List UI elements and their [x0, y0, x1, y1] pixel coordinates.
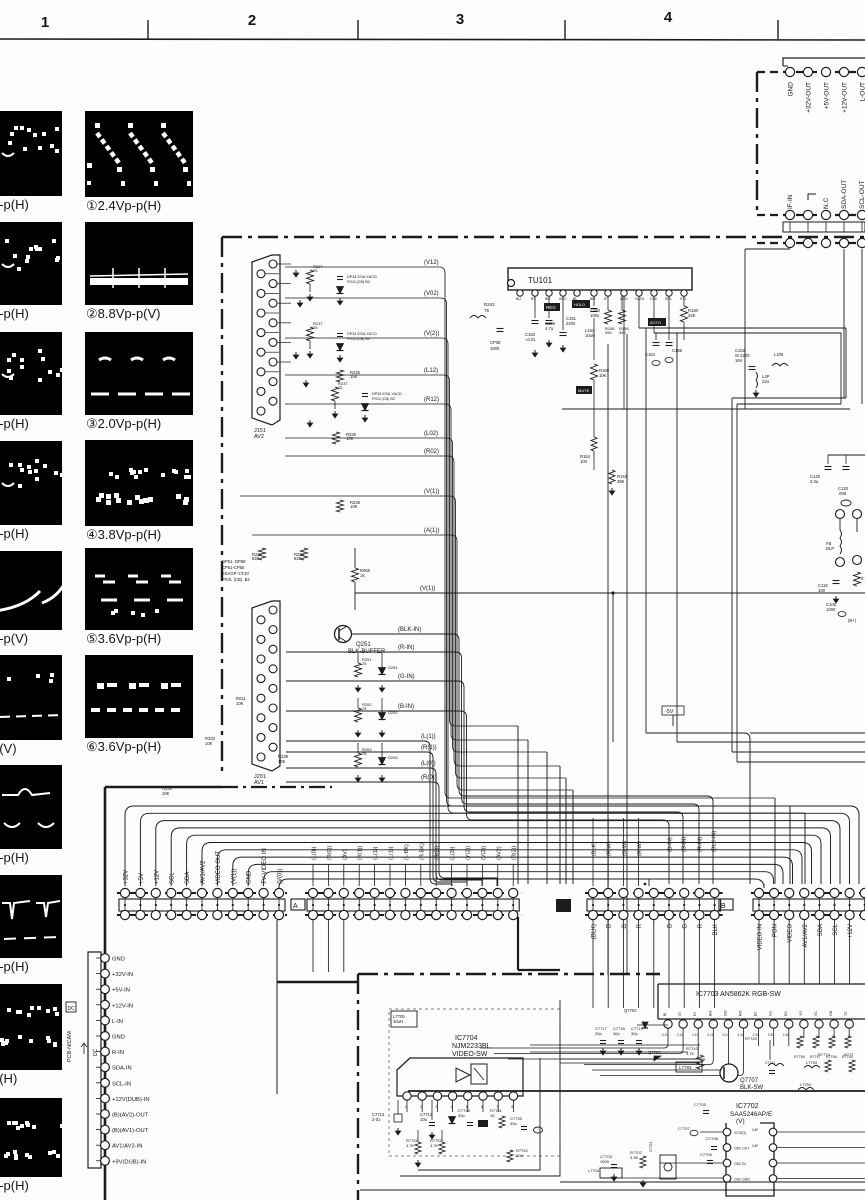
svg-text:30p: 30p [613, 1031, 620, 1036]
svg-text:(V(0)): (V(0)) [278, 869, 284, 884]
svg-text:(V(1)): (V(1)) [420, 586, 435, 592]
svg-text:BU: BU [516, 297, 521, 301]
svg-text:BLK: BLK [713, 924, 719, 935]
svg-text:Q7703: Q7703 [648, 1050, 661, 1055]
svg-text:(L12): (L12) [424, 368, 438, 374]
svg-text:AUTO: AUTO [650, 320, 661, 325]
svg-text:4.7u: 4.7u [545, 326, 554, 331]
svg-text:(L02): (L02) [424, 431, 438, 437]
svg-text:C7707: C7707 [678, 1126, 691, 1131]
svg-text:R7748: R7748 [794, 1055, 805, 1059]
svg-text:ESAGP-Y/CD/: ESAGP-Y/CD/ [222, 571, 250, 576]
svg-text:(B-IN): (B-IN) [398, 704, 414, 710]
svg-text:OSC IN: OSC IN [734, 1162, 746, 1166]
svg-text:15K: 15K [350, 374, 358, 379]
svg-text:100: 100 [516, 1153, 523, 1158]
svg-text:SAA5246AP/E: SAA5246AP/E [730, 1111, 773, 1118]
svg-text:(L(1)): (L(1)) [373, 846, 379, 860]
svg-text:(V(1)): (V(1)) [231, 869, 237, 884]
svg-text:2.1V: 2.1V [692, 1033, 699, 1037]
svg-text:p-p(H): p-p(H) [0, 1178, 29, 1193]
svg-text:CP38: CP38 [490, 340, 501, 345]
svg-text:B2: B2 [754, 1012, 758, 1016]
svg-text:STL: STL [680, 297, 687, 301]
svg-text:L7754: L7754 [800, 1082, 812, 1087]
svg-text:④3.8Vp-p(H): ④3.8Vp-p(H) [86, 527, 161, 542]
svg-text:=0.01: =0.01 [525, 337, 536, 342]
svg-text:820: 820 [252, 556, 260, 561]
svg-text:+12V-OUT: +12V-OUT [842, 82, 849, 113]
svg-text:PIC6 (CB) B2: PIC6 (CB) B2 [372, 397, 395, 401]
svg-text:(V02): (V02) [424, 291, 439, 297]
svg-text:G: G [683, 924, 689, 929]
svg-text:(R(1)): (R(1)) [421, 745, 437, 751]
svg-text:(R12): (R12) [424, 397, 439, 403]
svg-text:BI: BI [663, 1013, 667, 1016]
svg-text:C7705: C7705 [694, 1102, 707, 1107]
svg-text:PIC6 (CB) B2: PIC6 (CB) B2 [347, 337, 370, 341]
svg-text:PIC6. (CB). B2: PIC6. (CB). B2 [222, 577, 250, 582]
svg-text:10K: 10K [205, 741, 213, 746]
svg-text:SCL-OUT: SCL-OUT [859, 180, 865, 209]
svg-text:2: 2 [248, 12, 256, 29]
svg-text:4.7K: 4.7K [430, 1143, 439, 1148]
svg-text:L7793: L7793 [679, 1065, 692, 1070]
svg-text:(L(1)): (L(1)) [389, 846, 395, 860]
svg-text:2.1V: 2.1V [738, 1033, 745, 1037]
svg-text:+32V-IN: +32V-IN [112, 972, 133, 978]
svg-text:IC7702: IC7702 [736, 1103, 759, 1110]
svg-text:(V12): (V12) [424, 260, 439, 266]
svg-text:100: 100 [580, 459, 588, 464]
svg-text:GO: GO [723, 1010, 727, 1016]
svg-text:X7701: X7701 [649, 1142, 653, 1152]
svg-text:1000: 1000 [490, 346, 500, 351]
svg-text:(B+): (B+) [848, 618, 857, 623]
svg-text:R2: R2 [784, 1011, 788, 1016]
svg-text:GN: GN [829, 1010, 833, 1016]
svg-text:2.3V: 2.3V [768, 1033, 775, 1037]
svg-text:GI: GI [678, 1012, 682, 1016]
svg-text:(L(0)): (L(0)) [312, 846, 318, 860]
svg-text:BM: BM [590, 297, 595, 301]
svg-text:B: B [668, 924, 674, 928]
svg-text:+12V-IN: +12V-IN [112, 1003, 133, 1009]
svg-text:C7709: C7709 [700, 1152, 713, 1157]
svg-text:6: 6 [481, 1105, 483, 1109]
svg-text:(G-W): (G-W) [622, 841, 628, 856]
svg-text:39p: 39p [458, 1113, 465, 1118]
svg-text:Q7707: Q7707 [740, 1078, 759, 1084]
svg-text:4.7: 4.7 [861, 576, 865, 581]
svg-text:TU101: TU101 [528, 276, 553, 285]
svg-text:4.4F: 4.4F [752, 1128, 758, 1132]
svg-text:75: 75 [362, 661, 367, 666]
svg-text:D253: D253 [388, 755, 398, 760]
svg-text:10K: 10K [278, 759, 286, 764]
svg-text:10K: 10K [346, 436, 354, 441]
svg-text:BLK-SW: BLK-SW [740, 1085, 763, 1091]
svg-text:22K: 22K [688, 313, 696, 318]
svg-text:10K: 10K [236, 701, 244, 706]
svg-text:100: 100 [818, 588, 826, 593]
svg-text:R242: R242 [484, 302, 495, 307]
svg-text:Q7702: Q7702 [624, 1008, 637, 1013]
svg-text:REG: REG [546, 305, 556, 310]
svg-text:Q251: Q251 [356, 642, 371, 648]
svg-text:4.7K: 4.7K [686, 1051, 695, 1056]
svg-text:(BLK): (BLK) [592, 924, 598, 939]
svg-text:(R-IN): (R-IN) [698, 837, 704, 852]
svg-text:DLP: DLP [826, 546, 834, 551]
svg-text:(A(1)): (A(1)) [424, 528, 439, 534]
svg-text:30p: 30p [595, 1031, 602, 1036]
svg-text:3: 3 [435, 1105, 437, 1109]
svg-text:p(H): p(H) [0, 1071, 17, 1086]
svg-text:2.1V: 2.1V [707, 1033, 714, 1037]
svg-text:AV2: AV2 [254, 434, 264, 440]
svg-text:L-OUT: L-OUT [860, 82, 865, 102]
svg-text:10u: 10u [420, 1117, 428, 1122]
svg-text:SRL: SRL [665, 297, 672, 301]
svg-text:R: R [698, 923, 704, 928]
svg-text:G: G [622, 924, 628, 929]
svg-text:IF-IN: IF-IN [787, 194, 794, 209]
svg-text:SDA: SDA [185, 872, 191, 884]
svg-text:GND: GND [247, 870, 253, 884]
svg-text:R-IN: R-IN [112, 1050, 124, 1056]
svg-text:1: 1 [41, 14, 49, 31]
svg-text:2-01: 2-01 [372, 1117, 381, 1122]
svg-text:p(V): p(V) [0, 741, 17, 756]
svg-text:75: 75 [362, 706, 367, 711]
svg-text:DATA: DATA [635, 297, 645, 301]
svg-text:(R-IN): (R-IN) [398, 645, 414, 651]
svg-text:p-p(H): p-p(H) [0, 959, 29, 974]
svg-text:DP34 ESA-YACD: DP34 ESA-YACD [347, 332, 377, 336]
svg-text:D251: D251 [388, 665, 398, 670]
svg-text:p-p(H): p-p(H) [0, 197, 29, 212]
svg-text:C154: C154 [645, 352, 656, 357]
svg-text:DC: DC [68, 1006, 76, 1012]
svg-text:CP51-CP55: CP51-CP55 [222, 565, 245, 570]
svg-text:AV1/AV2: AV1/AV2 [201, 860, 207, 884]
svg-text:(R-W): (R-W) [637, 841, 643, 856]
svg-text:(L(2)): (L(2)) [450, 846, 456, 860]
svg-text:4: 4 [664, 9, 673, 26]
svg-text:+9V(DUB)-IN: +9V(DUB)-IN [112, 1159, 146, 1165]
svg-text:VIDEO: VIDEO [788, 924, 794, 943]
svg-text:L-IN: L-IN [112, 1019, 123, 1025]
svg-text:(G-IN): (G-IN) [398, 674, 415, 680]
svg-text:SCL: SCL [833, 923, 839, 935]
svg-text:(BLK-IN): (BLK-IN) [712, 830, 718, 852]
svg-text:DC: DC [93, 1048, 99, 1056]
svg-text:1: 1 [405, 1105, 407, 1109]
svg-text:(B-IN): (B-IN) [668, 837, 674, 852]
svg-text:4: 4 [451, 1105, 453, 1109]
svg-text:(G-IN): (G-IN) [682, 837, 688, 852]
svg-text:390: 390 [605, 330, 612, 335]
svg-text:+12V: +12V [848, 924, 854, 938]
svg-text:AV1/AV2-IN: AV1/AV2-IN [112, 1144, 142, 1150]
svg-text:2200: 2200 [566, 321, 576, 326]
svg-text:R777: R777 [844, 1052, 854, 1057]
svg-text:3.3K: 3.3K [630, 1155, 639, 1160]
svg-text:(V(1)): (V(1)) [424, 489, 439, 495]
svg-text:+32V: +32V [124, 870, 130, 884]
svg-text:(V): (V) [736, 1118, 745, 1125]
svg-text:OSC GND: OSC GND [734, 1178, 750, 1182]
svg-text:VIDEO IN: VIDEO IN [758, 924, 764, 950]
svg-text:1000: 1000 [600, 1159, 610, 1164]
svg-text:TC: TC [844, 1011, 848, 1016]
svg-text:16V: 16V [735, 358, 743, 363]
svg-text:C7708: C7708 [706, 1136, 719, 1141]
svg-text:R: R [637, 923, 643, 928]
svg-text:10K: 10K [162, 791, 170, 796]
svg-text:+5V-OUT: +5V-OUT [824, 82, 831, 109]
svg-text:BT: BT [531, 297, 536, 301]
svg-text:L7753: L7753 [806, 1060, 818, 1065]
svg-text:IC7703 AN5862K RGB-SW: IC7703 AN5862K RGB-SW [696, 991, 781, 998]
svg-text:22u: 22u [762, 379, 770, 384]
svg-text:(BLK-IN): (BLK-IN) [398, 627, 421, 633]
svg-text:(Y(2)): (Y(2)) [466, 846, 472, 860]
svg-text:AV1/AV2: AV1/AV2 [803, 923, 809, 947]
svg-text:DP34 ESA-YACD: DP34 ESA-YACD [347, 275, 377, 279]
svg-text:OSC OUT: OSC OUT [734, 1147, 749, 1151]
svg-text:(R02): (R02) [424, 449, 439, 455]
svg-text:3.3u: 3.3u [810, 479, 819, 484]
svg-text:39p: 39p [510, 1121, 517, 1126]
svg-text:4.7K: 4.7K [406, 1143, 415, 1148]
svg-text:(R(1)): (R(1)) [358, 845, 364, 860]
svg-text:390: 390 [619, 330, 626, 335]
svg-text:(R(2)): (R(2)) [435, 845, 441, 860]
svg-text:p-p(H): p-p(H) [0, 416, 29, 431]
svg-text:GND: GND [112, 957, 125, 963]
svg-text:DP34 ESA-YACD: DP34 ESA-YACD [372, 392, 402, 396]
svg-text:(B)(AV2)-OUT: (B)(AV2)-OUT [112, 1113, 149, 1119]
svg-text:YS: YS [799, 1011, 803, 1016]
svg-text:(AV2): (AV2) [496, 846, 502, 860]
svg-text:SDA: SDA [818, 924, 824, 936]
svg-text:.008: .008 [838, 491, 847, 496]
svg-text:SDA-IN: SDA-IN [112, 1066, 132, 1072]
svg-text:1K: 1K [490, 1113, 495, 1118]
svg-text:GND: GND [112, 1035, 125, 1041]
svg-text:A: A [293, 903, 298, 910]
svg-text:L7704: L7704 [588, 1168, 600, 1173]
svg-text:AV1: AV1 [254, 780, 264, 786]
svg-text:10K: 10K [350, 504, 358, 509]
svg-text:B: B [721, 903, 726, 910]
svg-text:GND: GND [788, 82, 795, 97]
svg-text:100u: 100u [590, 313, 600, 318]
svg-text:+12V(DUB)-IN: +12V(DUB)-IN [112, 1097, 150, 1103]
svg-text:L105: L105 [774, 352, 784, 357]
svg-text:10uH: 10uH [585, 333, 595, 338]
svg-text:(V(2)): (V(2)) [481, 846, 487, 860]
svg-text:p-p(H): p-p(H) [0, 306, 29, 321]
svg-text:VIDEO-SW: VIDEO-SW [452, 1051, 488, 1058]
svg-text:+12V: +12V [154, 870, 160, 884]
svg-text:B: B [607, 924, 613, 928]
svg-text:RO: RO [739, 1010, 743, 1016]
svg-text:8: 8 [511, 1105, 513, 1109]
svg-text:75: 75 [313, 325, 318, 330]
svg-text:p-p(H): p-p(H) [0, 850, 29, 865]
svg-text:10uH: 10uH [393, 1019, 403, 1024]
svg-text:SCL-IN: SCL-IN [112, 1081, 131, 1087]
svg-text:VIDEO OUT: VIDEO OUT [216, 851, 222, 884]
svg-text:(R(0)): (R(0)) [421, 775, 437, 781]
svg-text:75: 75 [484, 308, 490, 313]
svg-text:+5V-IN: +5V-IN [112, 988, 130, 994]
svg-text:75: 75 [313, 268, 318, 273]
svg-text:30p: 30p [631, 1031, 638, 1036]
svg-text:D252: D252 [388, 710, 398, 715]
svg-text:N.C: N.C [823, 198, 830, 210]
svg-text:p-p(V): p-p(V) [0, 631, 28, 646]
svg-text:p-p(H): p-p(H) [0, 526, 29, 541]
svg-text:①2.4Vp-p(H): ①2.4Vp-p(H) [86, 198, 161, 213]
svg-text:3: 3 [456, 11, 464, 28]
svg-text:1K: 1K [360, 573, 365, 578]
svg-text:+5V: +5V [139, 873, 145, 884]
svg-text:(R(0)): (R(0)) [327, 845, 333, 860]
svg-text:(R-BK): (R-BK) [419, 843, 425, 860]
svg-text:⑥3.6Vp-p(H): ⑥3.6Vp-p(H) [86, 739, 161, 754]
svg-text:DP51- DP58: DP51- DP58 [222, 559, 246, 564]
svg-text:2.1V: 2.1V [662, 1033, 669, 1037]
svg-text:HOLD: HOLD [574, 302, 585, 307]
svg-text:(B)(AV1)-OUT: (B)(AV1)-OUT [112, 1128, 149, 1134]
svg-text:2.3V: 2.3V [783, 1033, 790, 1037]
svg-text:4.4F: 4.4F [752, 1144, 758, 1148]
svg-text:BH: BH [545, 297, 550, 301]
svg-text:820: 820 [294, 556, 302, 561]
svg-text:(V(2)): (V(2)) [424, 331, 439, 337]
svg-text:2.1V: 2.1V [722, 1033, 729, 1037]
svg-text:(L(1)): (L(1)) [421, 734, 436, 740]
svg-text:SCL: SCL [170, 872, 176, 884]
svg-text:10K: 10K [599, 373, 607, 378]
svg-text:BO: BO [708, 1011, 712, 1016]
svg-text:PIC6 (CB) B2: PIC6 (CB) B2 [347, 280, 370, 284]
svg-text:(BLK): (BLK) [592, 842, 598, 856]
svg-text:75: 75 [338, 385, 343, 390]
svg-text:-5V: -5V [665, 709, 674, 715]
svg-text:2.1V: 2.1V [677, 1033, 684, 1037]
svg-text:PCB-NICAM: PCB-NICAM [67, 1031, 73, 1062]
svg-text:G2: G2 [769, 1011, 773, 1016]
svg-text:R7774: R7774 [818, 1052, 831, 1057]
svg-text:(L-BK): (L-BK) [404, 844, 410, 860]
svg-text:(AV): (AV) [342, 849, 348, 860]
svg-text:39K: 39K [617, 479, 625, 484]
svg-text:VC: VC [814, 1011, 818, 1016]
svg-text:PON: PON [773, 924, 779, 937]
svg-text:(R(2)): (R(2)) [512, 845, 518, 860]
svg-text:(R-W): (R-W) [607, 841, 613, 856]
svg-text:②8.8Vp-p(V): ②8.8Vp-p(V) [86, 306, 161, 321]
svg-text:TV-VIDEO IN: TV-VIDEO IN [262, 848, 268, 884]
svg-text:+32V-OUT: +32V-OUT [806, 82, 813, 113]
svg-text:(L(0)): (L(0)) [421, 761, 436, 767]
svg-text:VCO(O): VCO(O) [734, 1131, 746, 1135]
svg-text:③2.0Vp-p(H): ③2.0Vp-p(H) [86, 416, 161, 431]
svg-text:2: 2 [420, 1105, 422, 1109]
svg-text:1000: 1000 [826, 607, 836, 612]
svg-text:SDA-OUT: SDA-OUT [841, 180, 848, 209]
svg-text:NJM2233BL: NJM2233BL [452, 1043, 491, 1050]
svg-text:IC7704: IC7704 [455, 1035, 478, 1042]
svg-text:MUTE: MUTE [578, 388, 590, 393]
svg-text:⑤3.6Vp-p(H): ⑤3.6Vp-p(H) [86, 631, 161, 646]
svg-text:R7749: R7749 [745, 1036, 758, 1041]
svg-text:RI: RI [693, 1012, 697, 1016]
